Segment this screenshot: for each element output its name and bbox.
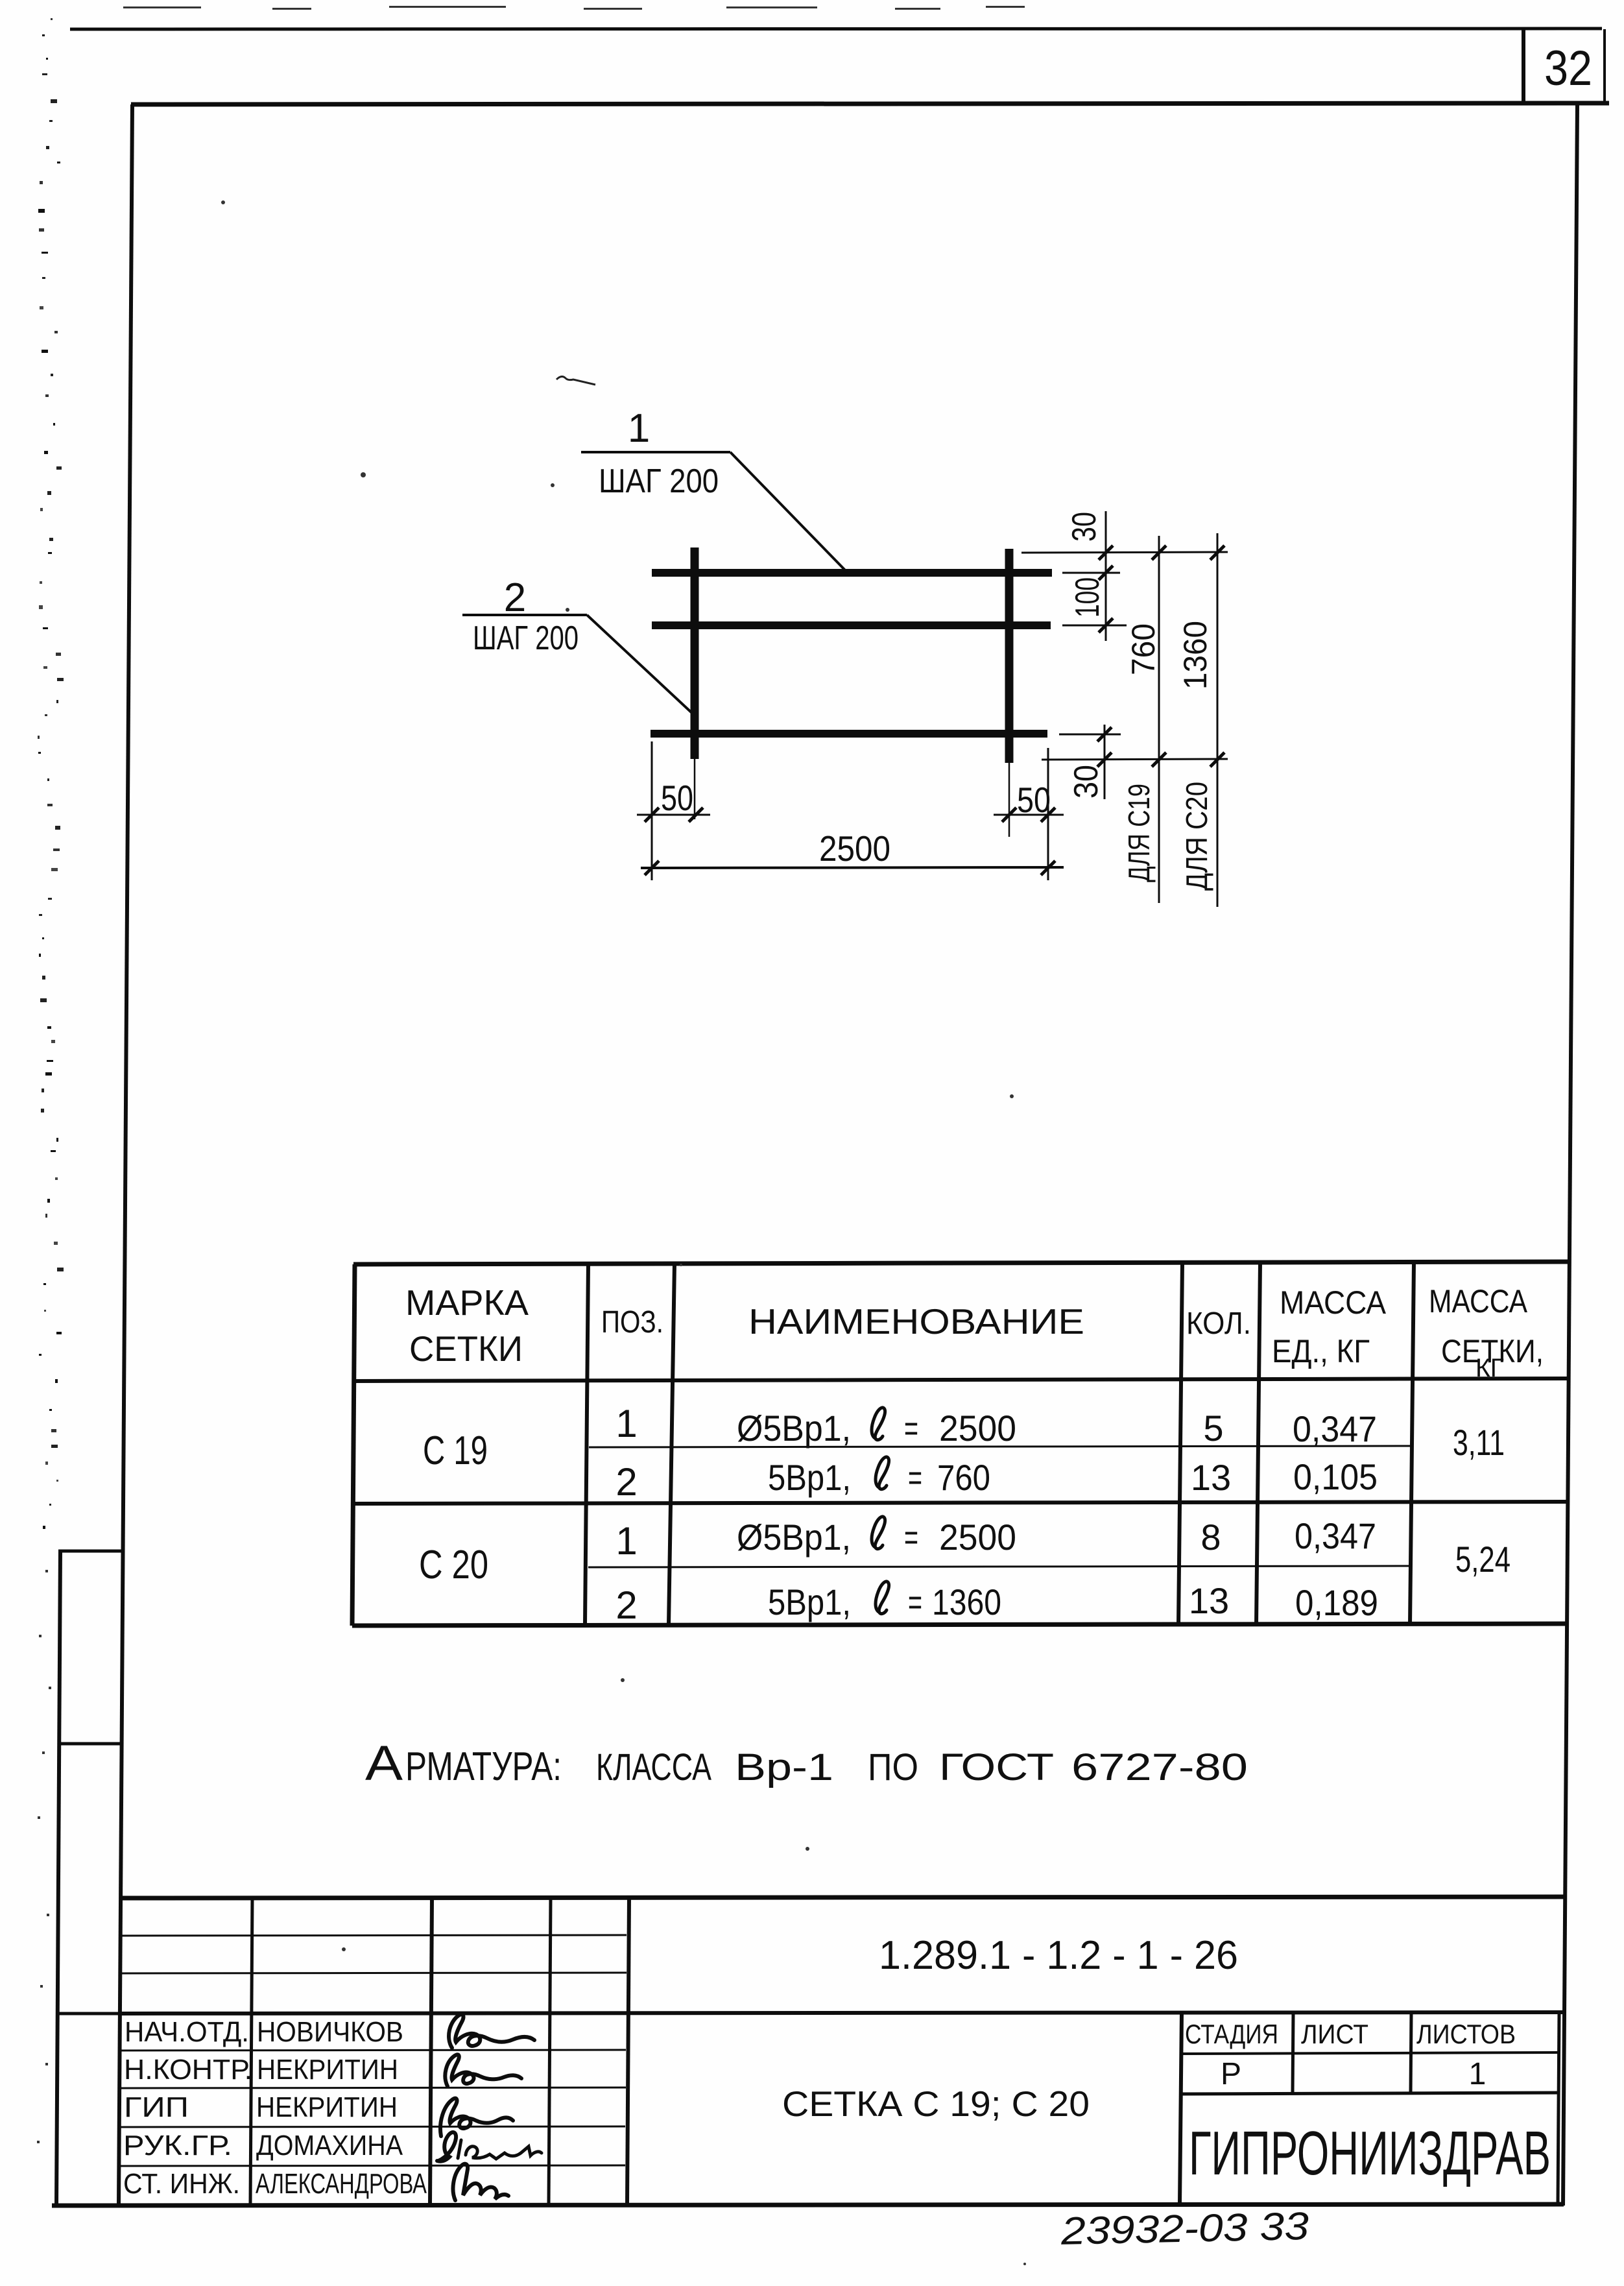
stamp divider list/listov: [1411, 2014, 1411, 2093]
svg-text:13: 13: [1189, 1580, 1229, 1621]
TABLE DATA TEXT: [419, 1402, 1511, 1627]
table top border: [353, 1262, 1569, 1264]
svg-text:2500: 2500: [939, 1517, 1016, 1558]
svg-text:5: 5: [1203, 1408, 1223, 1449]
svg-text:1360: 1360: [932, 1582, 1001, 1622]
svg-text:0,347: 0,347: [1295, 1515, 1376, 1556]
svg-text:32: 32: [1544, 41, 1592, 96]
svg-text:1: 1: [628, 406, 650, 451]
tick marks bottom dimensions: [645, 808, 659, 822]
dimension line 50 left: [637, 814, 710, 816]
svg-text:Вр-1: Вр-1: [735, 1746, 833, 1788]
frame right border: [1563, 104, 1577, 2206]
svg-text:ДЛЯ С20: ДЛЯ С20: [1180, 782, 1213, 891]
svg-text:50: 50: [661, 778, 693, 818]
svg-text:СТАДИЯ: СТАДИЯ: [1185, 2019, 1278, 2049]
svg-text:2500: 2500: [939, 1408, 1016, 1449]
stray pen mark top: [556, 376, 595, 385]
svg-text:СТ. ИНЖ.: СТ. ИНЖ.: [123, 2168, 240, 2200]
wire pos1 top: [652, 569, 1052, 577]
outer top rule: [70, 29, 1602, 29]
ell row2: [876, 1457, 889, 1489]
svg-text:ДЛЯ С19: ДЛЯ С19: [1122, 784, 1156, 882]
name row line 2: [119, 2087, 626, 2088]
svg-text:А: А: [365, 1736, 403, 1791]
table left border: [352, 1264, 355, 1626]
tick marks right dimensions: [1099, 546, 1113, 560]
title block mid line: [119, 2012, 1565, 2014]
title block top line: [121, 1897, 1566, 1898]
extension line at top wire: [1062, 572, 1120, 574]
svg-text:НЕКРИТИН: НЕКРИТИН: [256, 2091, 398, 2123]
signature novichkov: [449, 2014, 534, 2048]
svg-text:ГИПРОНИИЗДРАВ: ГИПРОНИИЗДРАВ: [1189, 2119, 1551, 2188]
thin row line b (top-left section): [120, 1973, 627, 1973]
frame top border: [131, 103, 1609, 104]
title col line 1: [250, 1898, 252, 2204]
svg-text:0,105: 0,105: [1293, 1456, 1378, 1497]
page number box left edge: [1522, 29, 1525, 104]
svg-text:13: 13: [1191, 1457, 1231, 1498]
extension line at bottom wire right: [1059, 734, 1121, 736]
signature domakhina: [437, 2132, 456, 2161]
svg-text:СЕТКИ: СЕТКИ: [409, 1329, 523, 1369]
svg-text:23932-03 33: 23932-03 33: [1060, 2204, 1309, 2253]
extension line bottom right: [1042, 759, 1228, 760]
svg-text:МАССА: МАССА: [1429, 1283, 1528, 1319]
leader 1 diagonal: [730, 452, 847, 572]
svg-text:С 19: С 19: [423, 1428, 488, 1473]
svg-text:1: 1: [615, 1519, 637, 1563]
svg-text:С 20: С 20: [419, 1543, 488, 1587]
title col line 3: [549, 1898, 551, 2204]
leader 1 shelf: [581, 451, 730, 453]
dimension line 30/100: [1105, 511, 1107, 641]
filing strip divider 2: [56, 2012, 121, 2015]
signature nekritin 1: [445, 2054, 521, 2086]
svg-text:2: 2: [504, 575, 526, 620]
filing strip divider 1: [58, 1742, 123, 1746]
svg-text:2: 2: [615, 1583, 637, 1627]
signature aleksandrova: [453, 2164, 508, 2200]
table col line massa/massa setki: [1410, 1262, 1414, 1625]
svg-text:1360: 1360: [1177, 621, 1213, 690]
svg-text:=: =: [904, 1408, 918, 1449]
svg-text:30: 30: [1068, 765, 1105, 799]
SPECIFICATION TABLE: [352, 1262, 1569, 1626]
svg-text:МАРКА: МАРКА: [405, 1282, 529, 1323]
name row line 4: [119, 2165, 625, 2166]
table col line marka/poz: [585, 1264, 588, 1625]
svg-text:1: 1: [1469, 2057, 1487, 2091]
wire pos1 bottom: [651, 730, 1047, 738]
wire pos2 left: [691, 547, 699, 759]
extension line top right: [1021, 552, 1228, 553]
table thin row line C19: [589, 1446, 1412, 1447]
MESH DIAGRAM: [462, 452, 1052, 763]
NOISE: [37, 18, 64, 2143]
stamp right inner edge: [1558, 2014, 1559, 2204]
svg-text:ШАГ 200: ШАГ 200: [473, 620, 579, 657]
stamp left edge: [1180, 2014, 1182, 2204]
ell row4: [876, 1582, 889, 1614]
name row line 1: [119, 2050, 626, 2051]
svg-text:Ø5Вр1,: Ø5Вр1,: [737, 1517, 851, 1558]
svg-text:0,347: 0,347: [1293, 1408, 1377, 1449]
svg-text:0,189: 0,189: [1295, 1582, 1378, 1623]
SIGNATURES: [437, 2014, 542, 2200]
table col line poz/naimenovanie: [669, 1264, 675, 1625]
stamp row line: [1180, 2093, 1558, 2094]
svg-text:ЛИСТ: ЛИСТ: [1301, 2019, 1368, 2049]
extension line at middle wire: [1062, 625, 1127, 627]
svg-text:2500: 2500: [819, 828, 890, 869]
table row line C19/C20: [352, 1502, 1568, 1504]
extension line mesh left end: [651, 741, 653, 880]
thin row line a (top-left section): [120, 1935, 627, 1936]
extension line mesh right end: [1047, 748, 1049, 880]
title col line 2: [430, 1898, 432, 2204]
svg-text:=: =: [908, 1457, 922, 1498]
svg-text:Ø5Вр1,: Ø5Вр1,: [737, 1408, 851, 1449]
dimension line 1360: [1217, 533, 1219, 907]
svg-text:5Вр1,: 5Вр1,: [768, 1457, 851, 1498]
svg-text:МАССА: МАССА: [1280, 1284, 1387, 1321]
dimension line 30 bottom: [1104, 725, 1106, 799]
svg-text:КОЛ.: КОЛ.: [1186, 1306, 1251, 1341]
svg-text:ЕД., КГ: ЕД., КГ: [1272, 1333, 1370, 1369]
ell row3: [872, 1517, 885, 1549]
svg-text:50: 50: [1017, 780, 1051, 820]
table header bottom line: [353, 1378, 1568, 1381]
svg-text:НОВИЧКОВ: НОВИЧКОВ: [257, 2016, 403, 2048]
svg-text:ДОМАХИНА: ДОМАХИНА: [256, 2130, 403, 2161]
svg-text:6727-80: 6727-80: [1071, 1746, 1248, 1788]
svg-text:Н.КОНТР.: Н.КОНТР.: [124, 2054, 252, 2086]
svg-text:ШАГ 200: ШАГ 200: [599, 463, 719, 500]
svg-text:100: 100: [1069, 577, 1106, 618]
svg-text:760: 760: [937, 1457, 990, 1498]
wire pos2 right: [1005, 549, 1014, 763]
filing strip top edge: [58, 1550, 124, 1553]
svg-text:Р: Р: [1221, 2057, 1241, 2091]
dimension line 50 right: [994, 814, 1064, 816]
filing strip left edge: [56, 1550, 60, 2205]
frame bottom border: [52, 2204, 1564, 2206]
svg-text:РУК.ГР.: РУК.ГР.: [123, 2130, 232, 2161]
svg-text:КЛАССА: КЛАССА: [596, 1746, 711, 1788]
svg-text:НЕКРИТИН: НЕКРИТИН: [257, 2054, 398, 2086]
svg-text:СЕТКА С 19; С 20: СЕТКА С 19; С 20: [782, 2084, 1090, 2124]
svg-text:5Вр1,: 5Вр1,: [768, 1582, 851, 1622]
svg-text:ПО: ПО: [868, 1746, 918, 1788]
name row line 3: [119, 2126, 625, 2127]
dimension line 760: [1158, 536, 1160, 903]
svg-text:=: =: [904, 1517, 918, 1558]
svg-text:3,11: 3,11: [1453, 1422, 1505, 1463]
svg-text:ПОЗ.: ПОЗ.: [601, 1305, 663, 1340]
svg-text:КГ: КГ: [1475, 1354, 1504, 1382]
table col line kol/massa: [1256, 1263, 1260, 1625]
svg-text:ГИП: ГИП: [124, 2091, 189, 2123]
svg-text:8: 8: [1200, 1517, 1221, 1558]
DIMENSIONS BOTTOM: [637, 741, 1064, 880]
svg-text:1: 1: [615, 1402, 637, 1445]
svg-text:РМАТУРА:: РМАТУРА:: [405, 1744, 562, 1789]
TITLE BLOCK TEXTS: [123, 2016, 427, 2200]
svg-text:2: 2: [615, 1460, 637, 1504]
extension wire pos2 left tail: [694, 759, 696, 819]
svg-text:1.289.1 - 1.2 - 1 - 26: 1.289.1 - 1.2 - 1 - 26: [879, 1933, 1238, 1978]
leader 2 shelf: [462, 614, 587, 616]
svg-text:ЛИСТОВ: ЛИСТОВ: [1416, 2019, 1516, 2049]
page number box right edge: [1603, 29, 1606, 104]
DIMENSIONS RIGHT: [1021, 511, 1228, 907]
svg-text:=: =: [908, 1582, 922, 1622]
extension wire pos2 right tail: [1009, 763, 1010, 837]
TABLE HEADER TEXT: [405, 1282, 1544, 1382]
ell row1: [872, 1408, 885, 1440]
NOTE TEXT: [365, 1736, 1248, 1791]
frame left border: [119, 104, 132, 2205]
svg-text:ГОСТ: ГОСТ: [939, 1746, 1054, 1788]
svg-text:АЛЕКСАНДРОВА: АЛЕКСАНДРОВА: [256, 2168, 427, 2200]
table thin row line C20: [588, 1566, 1411, 1567]
table bottom border: [352, 1624, 1567, 1626]
svg-text:НАЧ.ОТД.: НАЧ.ОТД.: [125, 2016, 249, 2048]
title col line 4: [627, 1898, 629, 2204]
signature nekritin 2: [440, 2099, 513, 2136]
table col line naimenovanie/kol: [1178, 1263, 1182, 1625]
svg-text:30: 30: [1066, 512, 1103, 542]
svg-text:НАИМЕНОВАНИЕ: НАИМЕНОВАНИЕ: [748, 1301, 1084, 1342]
leader 2 diagonal: [587, 615, 694, 715]
stamp header underline: [1180, 2052, 1558, 2054]
wire pos1 middle: [652, 621, 1051, 629]
stamp divider stadia/list: [1293, 2014, 1293, 2093]
svg-text:760: 760: [1125, 623, 1162, 675]
dimension line 2500: [641, 867, 1064, 868]
svg-text:5,24: 5,24: [1455, 1539, 1511, 1580]
